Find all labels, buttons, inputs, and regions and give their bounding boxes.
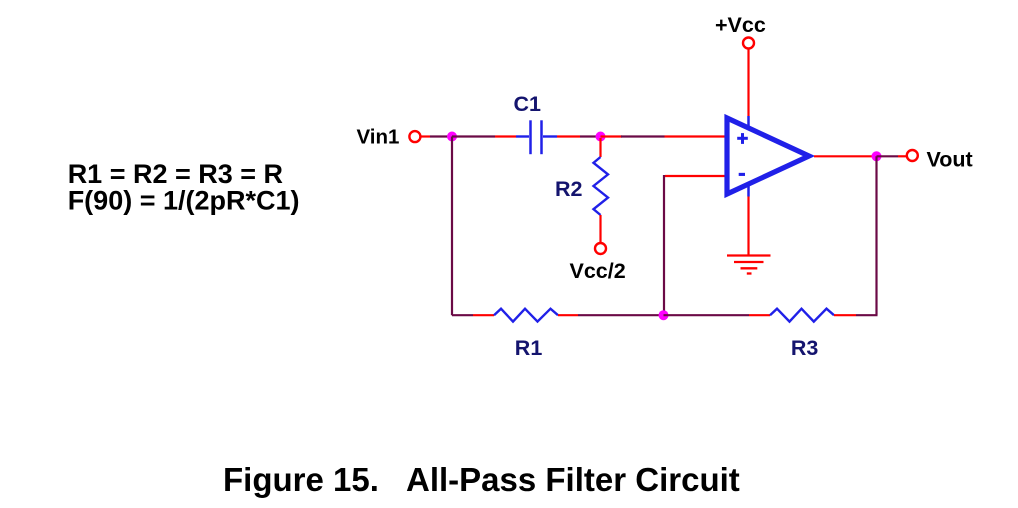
svg-text:C1: C1 bbox=[514, 92, 542, 116]
resistor R2 bbox=[594, 157, 609, 215]
formula text block bbox=[68, 159, 300, 216]
wire node D to R3 bbox=[664, 314, 750, 316]
node A junction dot bbox=[447, 132, 457, 142]
resistor R3 bbox=[770, 309, 834, 322]
wire bottom left bbox=[452, 314, 473, 316]
svg-text:R1 = R2 = R3 = R: R1 = R2 = R3 = R bbox=[68, 159, 283, 189]
wire node B to op-amp bbox=[621, 135, 665, 137]
svg-text:R1: R1 bbox=[515, 336, 543, 360]
pin + bbox=[737, 133, 748, 144]
wire Vin1 lead bbox=[421, 135, 430, 137]
wire C1 right lead red bbox=[557, 135, 580, 137]
svg-text:F(90) = 1/(2pR*C1): F(90) = 1/(2pR*C1) bbox=[68, 186, 300, 216]
svg-text:+Vcc: +Vcc bbox=[715, 13, 766, 37]
terminal Vin1 bbox=[409, 131, 420, 142]
terminal +Vcc bbox=[743, 38, 754, 49]
wire R1 left lead red bbox=[473, 314, 494, 316]
wire node C down bbox=[875, 156, 877, 315]
wire feedback horizontal red to minus input bbox=[665, 175, 727, 177]
pin V- blue stub bbox=[747, 183, 750, 197]
wire op-amp ground line bbox=[747, 197, 749, 256]
wire node C to Vout bbox=[877, 155, 899, 157]
resistor R1 bbox=[494, 309, 558, 322]
svg-text:R3: R3 bbox=[791, 336, 819, 360]
wire R3 left lead red bbox=[749, 314, 770, 316]
wire +Vcc supply line bbox=[747, 50, 749, 117]
svg-text:Figure 15.: Figure 15. bbox=[223, 461, 379, 498]
pin - bbox=[739, 173, 745, 176]
wire Vout lead red bbox=[898, 155, 906, 157]
op-amp U1 bbox=[727, 118, 809, 194]
svg-text:Vcc/2: Vcc/2 bbox=[570, 259, 626, 283]
wire C1 to node B bbox=[580, 135, 600, 137]
capacitor C1 bbox=[516, 120, 557, 154]
node B junction dot bbox=[596, 132, 606, 142]
svg-text:R2: R2 bbox=[555, 177, 583, 201]
wire feedback vertical bbox=[663, 175, 665, 315]
wire bottom right corner bbox=[856, 314, 878, 316]
wire R2 bottom lead red bbox=[599, 215, 601, 242]
wire C1 left lead red bbox=[495, 135, 516, 137]
ground bbox=[727, 256, 771, 274]
wire Vin1 to node A bbox=[430, 135, 452, 137]
node C junction dot bbox=[872, 151, 882, 161]
wire op-amp plus input lead red bbox=[665, 135, 728, 137]
svg-text:All-Pass Filter Circuit: All-Pass Filter Circuit bbox=[406, 461, 740, 498]
terminal Vcc/2 bbox=[595, 243, 606, 254]
terminal Vout bbox=[907, 150, 918, 161]
wire node B down red lead bbox=[599, 138, 601, 157]
node D junction dot bbox=[659, 310, 669, 320]
wire R1 right lead red bbox=[558, 314, 578, 316]
wire node A to C1 bbox=[452, 135, 495, 137]
wire R3 right lead red bbox=[834, 314, 856, 316]
svg-text:Vout: Vout bbox=[927, 148, 973, 172]
wire op-amp output red bbox=[814, 155, 872, 157]
wire node B right red bbox=[601, 135, 623, 137]
pin V+ blue stub bbox=[747, 116, 750, 130]
wire left column bbox=[451, 137, 453, 316]
svg-text:Vin1: Vin1 bbox=[357, 126, 400, 149]
wire R1 to node D bbox=[578, 314, 664, 316]
